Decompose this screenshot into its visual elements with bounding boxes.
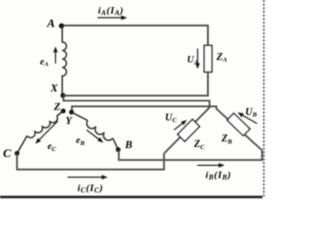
impedance ZC <box>178 119 200 141</box>
node C <box>15 151 20 156</box>
svg-text:ZC: ZC <box>193 139 205 151</box>
svg-text:A: A <box>46 16 55 30</box>
winding eC (Z to C) <box>57 111 63 116</box>
svg-text:iA(IA): iA(IA) <box>98 5 124 17</box>
svg-text:ZB: ZB <box>221 134 233 146</box>
svg-text:ZA: ZA <box>216 52 228 64</box>
winding eA <box>62 25 66 95</box>
svg-text:X: X <box>50 83 59 95</box>
svg-text:iB(IB): iB(IB) <box>206 170 232 182</box>
wire Y to ZB top <box>72 106 262 150</box>
svg-text:Z: Z <box>53 102 61 113</box>
svg-text:iC(IC): iC(IC) <box>78 183 104 195</box>
arrow UC <box>174 121 186 131</box>
impedance ZA <box>204 45 212 72</box>
arrow iB <box>197 164 223 166</box>
arrow eA <box>55 48 57 64</box>
arrow iC <box>68 176 107 178</box>
arrow eC <box>36 121 58 143</box>
svg-text:B: B <box>124 139 132 151</box>
arrow UB <box>239 113 258 124</box>
arrow iA <box>98 17 127 19</box>
svg-text:eC: eC <box>48 142 57 153</box>
arrow UA <box>197 49 199 69</box>
node B <box>116 147 121 152</box>
svg-text:UB: UB <box>245 107 257 119</box>
winding eB (Y to B) <box>72 112 88 120</box>
wire B to ZB bottom <box>119 150 262 160</box>
node Y <box>69 110 74 115</box>
svg-text:Y: Y <box>66 116 74 127</box>
svg-text:UC: UC <box>165 112 177 124</box>
node X <box>61 93 66 98</box>
svg-text:eA: eA <box>40 57 49 68</box>
node A <box>59 23 64 28</box>
wire X to ZA bottom <box>63 72 208 96</box>
arrow eB <box>87 130 103 142</box>
impedance ZB <box>227 113 250 135</box>
node Z <box>61 109 66 114</box>
frame bottom rule <box>0 196 263 198</box>
wire C to ZC bottom <box>17 153 164 170</box>
wire Z to ZC top <box>63 97 209 153</box>
svg-text:eB: eB <box>76 136 85 147</box>
wire A-top: node A to ZA top <box>62 26 208 46</box>
frame right dotted rule <box>263 0 265 197</box>
svg-text:C: C <box>3 146 12 160</box>
